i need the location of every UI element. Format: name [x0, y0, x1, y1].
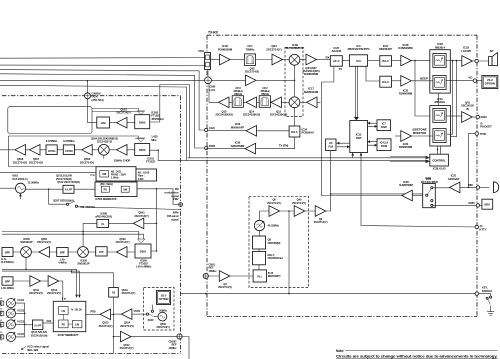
- bus arrows DSP to RAM: [368, 123, 377, 126]
- amp Q14: [246, 97, 257, 108]
- wire CF2 to amp Q12: [269, 101, 272, 103]
- wire Q8 junction down: [288, 211, 290, 294]
- wire DSP down to KTTY node: [361, 161, 477, 227]
- svg-text:SN16913P: SN16913P: [20, 240, 32, 244]
- svg-text:ANO: ANO: [480, 115, 487, 119]
- svg-text:PXD: PXD: [480, 132, 486, 136]
- oscillator VCO3: [6, 309, 15, 319]
- svg-text:78kHz: 78kHz: [261, 92, 270, 96]
- wire amp to IC502: [127, 122, 135, 124]
- svg-text:FM-wired: FM-wired: [167, 214, 179, 218]
- svg-text:NJM2904M: NJM2904M: [304, 90, 319, 94]
- analog switch IC22 MC74HC4852F: [423, 184, 436, 208]
- svg-text:2SC2714(Y): 2SC2714(Y): [13, 160, 27, 164]
- svg-text:ORD: ORD: [468, 201, 474, 205]
- svg-text:F in: F in: [62, 297, 67, 300]
- svg-text:FT1022: FT1022: [146, 160, 156, 164]
- wire IC503 out to FM2 node: [137, 189, 179, 205]
- mixer IC39 second: [289, 97, 300, 108]
- IC501 filter block: [135, 144, 150, 156]
- filter CF500: [63, 145, 74, 155]
- wire IC27 to IC28: [392, 60, 401, 62]
- wire X3 feed from Fin line: [72, 271, 114, 287]
- svg-text:2SC2714(Y): 2SC2714(Y): [116, 111, 130, 115]
- amp Q514: [121, 309, 132, 320]
- svg-text:modulation: modulation: [165, 190, 179, 194]
- connector node KEY on border: [475, 292, 478, 295]
- wire IC28 to IC29 with branch node: [411, 60, 433, 62]
- svg-text:SS-2: SS-2: [161, 293, 167, 297]
- svg-text:NFM: NFM: [173, 211, 179, 215]
- wire A-LPF to IC503: [74, 188, 95, 190]
- PLL block IC15: [253, 270, 267, 282]
- key jack and switch: [479, 294, 491, 296]
- svg-text:2SC2412(A,M): 2SC2412(A,M): [31, 333, 48, 337]
- svg-text:CONTROL: CONTROL: [432, 159, 446, 163]
- svg-text:VS-2: VS-2: [487, 78, 493, 82]
- dashed box PLL unit Q8: [249, 196, 309, 287]
- wire mixer2 to IC17: [300, 101, 307, 103]
- svg-text:RJN6008M: RJN6008M: [399, 145, 413, 149]
- row3 chain wires: [13, 251, 135, 253]
- svg-text:BPF: BPF: [60, 251, 66, 255]
- connector node FM2 on border: [179, 203, 183, 207]
- CONTROL block: [430, 154, 449, 166]
- wire Q41 to ANO node: [472, 116, 476, 118]
- svg-text:10MHz: 10MHz: [209, 269, 218, 273]
- svg-text:1400: 1400: [138, 178, 144, 181]
- connector node FMO on border: [205, 146, 208, 149]
- svg-text:A3023AR: A3023AR: [448, 177, 460, 181]
- wire switch to IC21 amp: [433, 187, 450, 189]
- svg-text:T2: T2: [0, 327, 2, 329]
- svg-text:UN: UN: [62, 310, 66, 313]
- svg-text:BRU: BRU: [485, 203, 491, 207]
- wire IC500 out to vertical: [151, 223, 157, 251]
- volume SW1: [433, 53, 446, 67]
- amp Q542: [121, 331, 132, 342]
- svg-text:VCA 2000(-C): VCA 2000(-C): [12, 177, 28, 181]
- svg-text:SN16913P: SN16913P: [77, 261, 89, 265]
- wire mixer2 down to IC34: [294, 108, 296, 127]
- wire CF3 to amp Q14: [243, 101, 246, 103]
- wire IC17 output right: [317, 101, 320, 103]
- svg-text:2SC2714(Y): 2SC2714(Y): [267, 201, 281, 205]
- amp Q513: [48, 276, 59, 287]
- block D8 L7: [253, 251, 266, 264]
- svg-text:6.375MHz: 6.375MHz: [63, 139, 75, 143]
- wire IC32 to SW2, BEEP label: [411, 80, 433, 82]
- IC34 D/A converter: [289, 126, 300, 137]
- svg-text:2SC2714(Y): 2SC2714(Y): [47, 291, 61, 295]
- wire row2 chain: [0, 149, 135, 151]
- amp Q507: [30, 145, 41, 156]
- svg-text:SP: SP: [490, 49, 494, 53]
- svg-text:(FM : 5kHz): (FM : 5kHz): [100, 183, 113, 186]
- svg-text:2SC2412(K52): 2SC2412(K52): [215, 112, 232, 116]
- ground: [487, 312, 494, 316]
- svg-text:2SC2714(Y): 2SC2714(Y): [314, 220, 328, 224]
- wire bus line L3 turning down to AGC node: [0, 70, 204, 130]
- row2 loop wire with hollow arrow into IC501: [8, 135, 135, 137]
- wire IC3 down to D/A 2: [366, 66, 380, 81]
- mixer Q504 Q505: [98, 144, 109, 155]
- svg-text:AK2346: AK2346: [332, 49, 342, 53]
- wire IC501 output to bus B: [150, 150, 159, 160]
- svg-text:1.0kHz: 1.0kHz: [111, 176, 119, 179]
- svg-text:IC503 MB88347/P: IC503 MB88347/P: [95, 197, 117, 201]
- filter CF2: [259, 96, 270, 108]
- svg-text:2SC2714(Y): 2SC2714(Y): [116, 240, 130, 244]
- svg-text:2SC2714(Y): 2SC2714(Y): [266, 47, 281, 51]
- row1 loop frame: [8, 107, 92, 134]
- svg-text:Q527 2SD1819(A): Q527 2SD1819(A): [53, 199, 74, 203]
- double wire IC3 to DSP with arrow: [355, 66, 357, 117]
- wires Q8 chain: [260, 210, 331, 212]
- volume SW2: [433, 75, 446, 89]
- connector CN10 on border: [203, 273, 208, 278]
- lowpass A-LPF 2: [33, 320, 43, 330]
- wire IC25 TX pin down-left-down to IC26: [322, 66, 402, 195]
- mixer IC506: [78, 247, 89, 258]
- amp Q508: [15, 145, 26, 156]
- IC3 op-amp block: [349, 55, 367, 67]
- connector node PXD: [475, 132, 478, 135]
- wire osc to A-LPF: [26, 188, 64, 190]
- F in feed wires into IC507: [2, 269, 77, 297]
- svg-text:PD: PD: [62, 323, 66, 326]
- svg-text:NJM4558M: NJM4558M: [399, 183, 413, 187]
- wire FMO to IC36: [206, 148, 245, 150]
- crystal X3: [109, 288, 119, 298]
- svg-text:VCO1: VCO1: [17, 332, 24, 336]
- IC502 filter block: [135, 115, 150, 129]
- svg-text:20MHz: 20MHz: [159, 310, 167, 313]
- svg-text:PLL: PLL: [257, 274, 262, 278]
- volume SW4: [433, 129, 446, 143]
- wire bus line L4 turning down to FMO node: [0, 74, 204, 148]
- wire LO between mixers: [294, 65, 296, 97]
- wire VCO collector vertical: [16, 303, 25, 337]
- svg-text:VCO3: VCO3: [17, 308, 24, 312]
- amp Q511: [30, 276, 41, 287]
- amp Q12: [271, 97, 282, 108]
- lowpass UL IC508: [97, 219, 109, 227]
- IC503 modulator block: [95, 182, 137, 197]
- svg-text:455/56kHz: 455/56kHz: [151, 117, 164, 121]
- svg-text:MC3362BCDF: MC3362BCDF: [286, 46, 305, 50]
- svg-text:N : 58..36: N : 58..36: [71, 309, 82, 312]
- svg-text:UNI: UNI: [102, 173, 107, 176]
- svg-text:2SC2412(Y)2: 2SC2412(Y)2: [97, 139, 113, 143]
- svg-text:2SC0584Cad: 2SC0584Cad: [268, 256, 284, 260]
- connector node AGC on border: [205, 128, 208, 131]
- crystal block Q8 2SK508: [253, 236, 266, 249]
- svg-text:2SC2714(Y): 2SC2714(Y): [120, 346, 134, 350]
- IC27 D/A converter 1: [380, 56, 392, 66]
- hollow arrow into IC502: [92, 108, 143, 111]
- limiter LIM: [97, 117, 110, 128]
- wire SW3 to Q41: [446, 115, 462, 117]
- oscillator 15.36MHz: [16, 183, 26, 193]
- svg-text:MHz: MHz: [151, 138, 157, 142]
- svg-text:IC4,5,6: IC4,5,6: [380, 141, 389, 145]
- connector node J4 KTTY: [475, 225, 478, 228]
- svg-text:2SC2412(K52): 2SC2412(K52): [270, 112, 287, 116]
- svg-text:2SC2714(Y): 2SC2714(Y): [29, 160, 43, 164]
- svg-text:M5223AFP/E4FP3: M5223AFP/E4FP3: [348, 47, 370, 51]
- wire Q12 to mixer2: [281, 101, 289, 103]
- svg-text:OS2: OS2: [46, 320, 52, 323]
- svg-text:FM2: FM2: [173, 197, 179, 201]
- wire Q43 to LO junction: [256, 79, 295, 81]
- amp IC26: [402, 190, 413, 201]
- svg-text:CN1: CN1: [198, 49, 204, 53]
- speaker SP: [489, 53, 498, 66]
- amp Q501: [133, 218, 144, 229]
- svg-text:LA4425: LA4425: [461, 49, 471, 53]
- svg-text:D053: D053: [139, 148, 146, 152]
- svg-text:PADDLE: PADDLE: [482, 289, 492, 293]
- wire switch to NFM tick: [78, 207, 181, 210]
- amp IC33: [462, 56, 473, 67]
- svg-text:D051: D051: [140, 250, 147, 254]
- dashed box SS-2 option: [144, 288, 175, 331]
- wire IC36 via TX(FM) to IC34: [256, 137, 295, 149]
- dashed box around IC39 mixers: [285, 47, 303, 116]
- amp Q15 (2nd IF chain): [219, 97, 230, 108]
- amp Q515: [100, 309, 111, 320]
- svg-text:OPTION: OPTION: [485, 82, 495, 86]
- svg-text:ROM: ROM: [381, 144, 387, 148]
- svg-text:RJN6008M: RJN6008M: [399, 92, 413, 96]
- svg-text:RJN6008M: RJN6008M: [218, 47, 233, 51]
- wire bus line L2 to CN1 lower pin: [0, 64, 206, 66]
- svg-text:AGC: AGC: [209, 126, 216, 130]
- svg-text:D/A C: D/A C: [382, 59, 389, 63]
- svg-text:2SK508(M): 2SK508(M): [268, 241, 281, 245]
- svg-text:signal: signal: [171, 194, 179, 198]
- svg-text:IN: IN: [466, 107, 469, 111]
- connector node VO1 on border: [475, 59, 478, 62]
- wire to A-LPF2: [25, 324, 33, 326]
- svg-text:IC7: IC7: [382, 122, 386, 126]
- volume SW3: [433, 108, 446, 122]
- data bus line B to CONTROL: [158, 160, 428, 162]
- svg-text:RJN6008M: RJN6008M: [304, 72, 319, 76]
- wire branch down to IC31 row: [415, 61, 433, 116]
- wire Q34 to IC25: [317, 59, 331, 61]
- oscillator VCO1: [6, 332, 15, 342]
- amp Q43: [246, 75, 257, 86]
- connector node VO2: [473, 79, 476, 82]
- svg-text:1.30-40MHz: 1.30-40MHz: [1, 287, 15, 290]
- svg-text:Q512 2SC1740S(R): Q512 2SC1740S(R): [57, 180, 80, 184]
- wire into IC30: [395, 135, 401, 137]
- wire bus line L5 to GN500 and CN2: [0, 80, 205, 93]
- amp Q503: [117, 145, 128, 156]
- connector CN2 LO4: [205, 77, 212, 84]
- PLL reference divider N2 block: [96, 167, 136, 181]
- lowpass A-LPF: [63, 185, 74, 193]
- svg-text:TX: TX: [339, 67, 343, 71]
- bottom frame line of row2: [8, 166, 96, 168]
- amp Q9: [315, 206, 326, 217]
- wire switch to ORD node: [433, 204, 476, 206]
- row3 loop wire with hollow arrow into IC500: [2, 232, 144, 240]
- svg-text:S640: S640: [148, 319, 154, 322]
- wire Q501 to vertical: [144, 222, 157, 224]
- wire Q501 to UL: [109, 222, 134, 224]
- wire amp to CF3: [229, 101, 232, 103]
- wire node to mic: [480, 186, 489, 188]
- wire IC3 to IC27 D/A: [368, 59, 380, 61]
- transistor amp Q41: [462, 112, 473, 123]
- wire A-LPF2 to IC507: [43, 322, 53, 324]
- speaker-mic unit BRU: [482, 199, 493, 209]
- svg-text:MB3614: MB3614: [435, 45, 445, 49]
- svg-text:T2: T2: [0, 305, 2, 307]
- wire amp to MIC node: [460, 186, 476, 188]
- wire IC507 to Q515: [86, 313, 100, 315]
- amp IC32: [401, 76, 412, 87]
- IC500 filter block: [135, 244, 151, 258]
- svg-text:2SC2714(Y): 2SC2714(Y): [134, 214, 148, 218]
- wire vertical junction to Q501: [156, 189, 158, 224]
- svg-text:RAM: RAM: [381, 125, 387, 129]
- wire IC29 to IC31: [438, 93, 440, 106]
- mixer IC505: [21, 247, 32, 258]
- svg-text:VCO2: VCO2: [17, 319, 24, 323]
- oscillator VCO2: [6, 320, 15, 330]
- svg-text:2SC2412(K52): 2SC2412(K52): [243, 112, 260, 116]
- wire IC25 to IC3: [342, 59, 349, 61]
- connector CN1: [205, 53, 211, 70]
- IC29 volume block: [430, 50, 451, 93]
- bandpass BPF row3: [2, 248, 13, 257]
- TX-RX unit dash-dot border: [207, 35, 477, 316]
- wire X3 down: [113, 297, 115, 353]
- svg-text:A-LPF: A-LPF: [65, 188, 73, 192]
- svg-text:BPF: BPF: [5, 251, 11, 255]
- amp IC21 mic: [449, 182, 460, 193]
- svg-text:VCO select signal: VCO select signal: [27, 345, 49, 349]
- wire IC502 output rise turning down to data bus y157.8: [160, 85, 190, 158]
- svg-text:M5060AFP: M5060AFP: [231, 125, 244, 129]
- wire IC40 to CF1: [230, 59, 244, 61]
- amp Q506: [82, 145, 93, 156]
- svg-text:BEEP: BEEP: [420, 77, 428, 81]
- IC27 D/A converter 2: [380, 76, 392, 87]
- IC7 RAM block: [377, 120, 391, 131]
- amp Q502: [39, 247, 50, 258]
- wire CN2 LO feed to second amp row: [211, 79, 245, 81]
- svg-text:6.375MHz: 6.375MHz: [46, 139, 58, 143]
- svg-text:UM: UM: [123, 188, 127, 191]
- svg-text:4B0- 4B3: 4B0- 4B3: [27, 348, 39, 352]
- svg-text:LIM: LIM: [101, 121, 106, 125]
- wire LIM to amp: [110, 122, 117, 124]
- svg-text:A-LPF: A-LPF: [34, 324, 42, 327]
- svg-text:2SC2714(Y): 2SC2714(Y): [156, 326, 169, 329]
- wire BPF chain down into IC507: [13, 281, 63, 301]
- svg-text:BPF: BPF: [5, 280, 11, 284]
- oscillator Q500 20MHz: [158, 312, 167, 321]
- wire to CF2: [257, 101, 260, 103]
- wire K3 down and left switch feed: [330, 151, 332, 211]
- svg-text:KTTY: KTTY: [479, 228, 486, 232]
- svg-text:CF500: CF500: [65, 149, 73, 153]
- option unit VS-2: [482, 76, 498, 89]
- svg-text:2SC2714(Y): 2SC2714(Y): [292, 201, 306, 205]
- wire CN2 down-diagonal to RX IF chain: [209, 84, 219, 103]
- svg-text:LIN: LIN: [75, 323, 79, 326]
- connector node ANO: [476, 115, 479, 118]
- oscillator 40.33MHz: [254, 220, 264, 230]
- wire SW2 to VS-2 with node: [446, 80, 482, 82]
- filter CF3: [232, 96, 243, 108]
- mixer IC39 first: [289, 54, 300, 65]
- svg-text:PU: PU: [104, 188, 108, 191]
- svg-text:MC74HC4852F: MC74HC4852F: [421, 180, 439, 184]
- svg-text:40.33MHz: 40.33MHz: [268, 224, 280, 228]
- data bus line A to CONTROL: [188, 157, 429, 159]
- svg-text:IC38,41,43: IC38,41,43: [433, 167, 446, 171]
- amp IC20: [246, 126, 257, 137]
- wire KEY line: [181, 293, 475, 295]
- bus arrows DSP to ROM: [368, 142, 377, 146]
- svg-text:10MHz: 10MHz: [169, 346, 178, 350]
- wire Q514 to switch S640: [132, 313, 147, 315]
- svg-text:(455-504): (455-504): [92, 98, 104, 102]
- svg-text:D/A C: D/A C: [291, 131, 298, 134]
- svg-text:2SC2714(Y): 2SC2714(Y): [29, 291, 43, 295]
- amp IC40: [220, 54, 231, 65]
- wire UL down to mixer506: [83, 223, 97, 246]
- svg-text:FMO: FMO: [209, 144, 216, 148]
- wires IC31 down to CONTROL: [438, 146, 441, 154]
- amp IC28: [401, 55, 412, 66]
- connector GN500 on border: [85, 93, 91, 99]
- filter CF1: [244, 54, 255, 66]
- wire IC502 output up to bus: [150, 85, 160, 123]
- amp Q40: [294, 206, 305, 217]
- wire mixer505 down to Fin bus: [25, 257, 27, 269]
- svg-text:PRD: PRD: [90, 310, 95, 313]
- bus arrows K3 to DSP: [337, 143, 349, 147]
- svg-text:78MHz: 78MHz: [246, 47, 256, 51]
- transistor amp Q23: [272, 54, 283, 65]
- IC12 DSP block: [350, 121, 368, 153]
- divider N1 block: [136, 169, 157, 181]
- svg-text:15.36MHz: 15.36MHz: [28, 180, 40, 184]
- svg-text:PACKET: PACKET: [480, 125, 492, 129]
- microphone symbol: [494, 182, 499, 193]
- svg-text:M51132L: M51132L: [435, 100, 446, 104]
- amp Q510: [117, 117, 128, 128]
- bandpass BPF4 RF: [2, 277, 13, 285]
- svg-text:TX-RX: TX-RX: [208, 30, 219, 34]
- svg-text:T2: T2: [0, 316, 2, 318]
- svg-text:15MHz CHOP: 15MHz CHOP: [114, 158, 131, 162]
- wire PXD left and down to mic junction: [468, 134, 475, 188]
- wire CN507 out down: [182, 337, 189, 359]
- svg-text:LPF: LPF: [99, 250, 104, 254]
- wire bus line L1 to CN1: [0, 57, 206, 60]
- svg-text:CF504: CF504: [48, 149, 56, 153]
- svg-text:2SC2714(Y): 2SC2714(Y): [245, 70, 259, 74]
- wire IC26 to switch: [412, 195, 422, 197]
